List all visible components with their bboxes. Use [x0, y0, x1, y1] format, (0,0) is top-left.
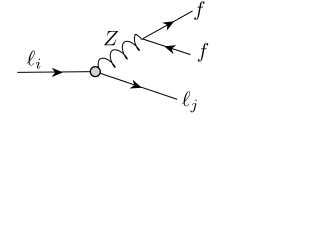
label subscript j [190, 100, 196, 113]
label subscript i [36, 59, 40, 69]
wire: incoming lepton line l_i [17, 71, 95, 74]
arrow on upper f line [162, 21, 174, 31]
blob vertex [90, 67, 100, 77]
label f upper [194, 1, 204, 20]
arrow on l_j line [130, 80, 142, 89]
arrow on incoming lepton line [52, 68, 63, 77]
label ell of l_j [182, 91, 190, 106]
label Z [104, 31, 118, 45]
photon Z wavy propagator (coil) [98, 34, 142, 69]
label f lower [198, 43, 208, 62]
label ell of l_i [27, 50, 35, 65]
wire: outgoing lepton line l_j [95, 72, 177, 100]
wire: incoming antifermion line f lower [142, 39, 190, 55]
wire: outgoing fermion line f upper [142, 11, 192, 39]
arrow on lower f line (points toward vertex) [164, 45, 176, 54]
